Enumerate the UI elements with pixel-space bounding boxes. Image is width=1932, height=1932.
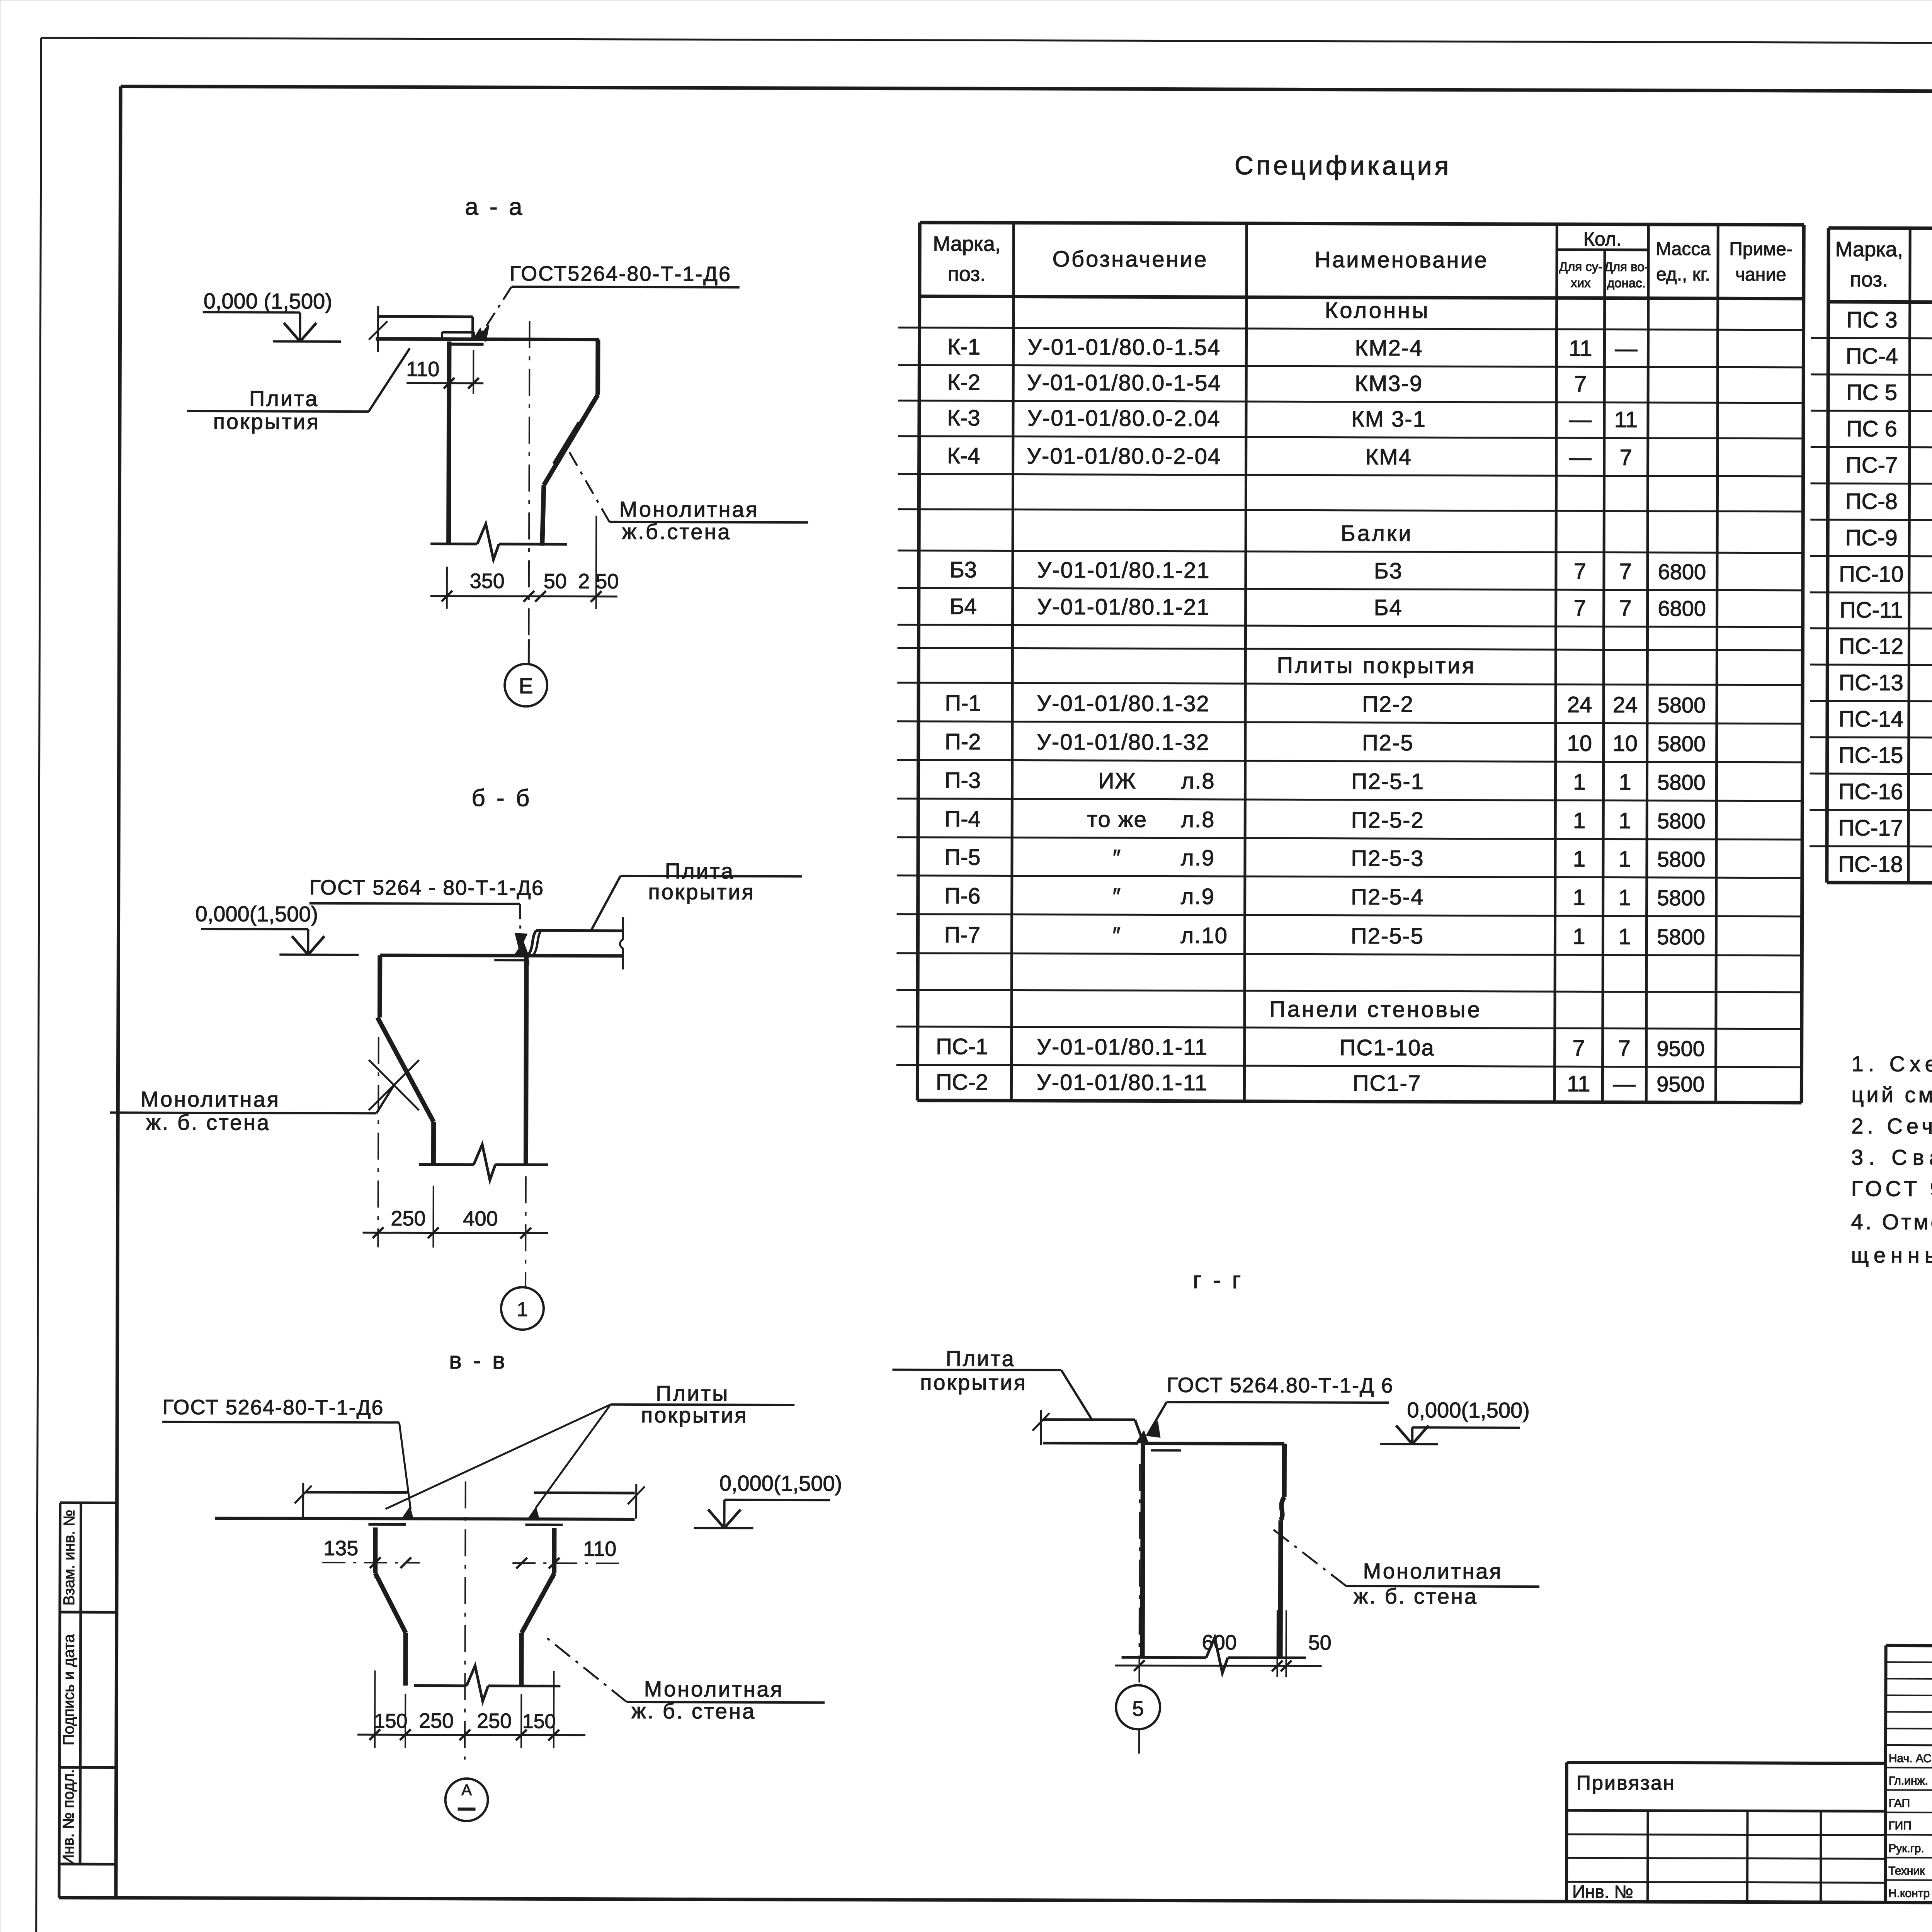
svg-text:5800: 5800 (1657, 770, 1706, 794)
svg-text:А: А (461, 1782, 472, 1799)
side stamp (left margin): Взам.инв.№ / Подпись и дата / Инв.№ подл. (59, 1503, 117, 1898)
svg-text:ГОСТ 5264 - 80-Т-1-Д6: ГОСТ 5264 - 80-Т-1-Д6 (310, 876, 544, 900)
section b-b wall outline (377, 955, 623, 1165)
svg-text:250: 250 (391, 1207, 425, 1230)
svg-text:1: 1 (517, 1298, 528, 1321)
svg-text:″: ″ (1112, 923, 1121, 948)
svg-text:Спецификация: Спецификация (1235, 151, 1452, 180)
left table data rows (936, 297, 1707, 1097)
svg-text:Монолитная: Монолитная (644, 1677, 784, 1701)
svg-text:П-3: П-3 (945, 768, 981, 793)
svg-text:9500: 9500 (1656, 1036, 1705, 1061)
section v-v axis circle (445, 1779, 488, 1821)
section b-b weld point (515, 943, 528, 955)
svg-text:50: 50 (1308, 1631, 1332, 1655)
section v-v roof slabs (215, 1483, 645, 1519)
svg-text:135: 135 (323, 1537, 358, 1560)
svg-text:—: — (1615, 336, 1637, 361)
svg-text:Для су-: Для су- (1559, 259, 1603, 274)
svg-text:Рук.гр.: Рук.гр. (1888, 1842, 1924, 1855)
svg-text:Е: Е (519, 673, 533, 698)
svg-text:1: 1 (1619, 847, 1631, 872)
svg-text:л.10: л.10 (1180, 923, 1228, 948)
svg-text:У-01-01/80.1-11: У-01-01/80.1-11 (1037, 1034, 1208, 1060)
section v-v bearing plates (368, 1524, 563, 1525)
svg-text:150: 150 (522, 1710, 556, 1733)
svg-text:У-01-01/80.0-1-54: У-01-01/80.0-1-54 (1027, 370, 1221, 396)
section v-v dim 110 (512, 1534, 622, 1578)
svg-text:Кол.: Кол. (1583, 228, 1622, 250)
section b-b elevation 0,000(1,500) (195, 901, 359, 955)
svg-text:ГАП: ГАП (1889, 1797, 1910, 1810)
svg-text:покрытия: покрытия (648, 879, 755, 904)
section v-v GOST weld label (162, 1396, 411, 1509)
section a-a GOST weld label (478, 262, 740, 342)
svg-text:Марка,: Марка, (1835, 238, 1903, 261)
svg-text:1: 1 (1573, 846, 1585, 871)
svg-text:П2-5-2: П2-5-2 (1351, 808, 1424, 833)
section g-g label Монолитная ж.б.стена (1269, 1526, 1540, 1609)
svg-text:2. Сечения замаркированы на: 2. Сечения замаркированы на л.18 (1851, 1114, 1932, 1139)
svg-text:Взам. инв. №: Взам. инв. № (61, 1510, 78, 1605)
svg-text:—: — (1569, 407, 1592, 432)
svg-text:г - г: г - г (1193, 1267, 1243, 1294)
left table row lines (896, 328, 1804, 1067)
svg-text:6800: 6800 (1658, 596, 1706, 621)
notes text block (1851, 1051, 1932, 1269)
svg-text:Обозначение: Обозначение (1053, 247, 1208, 272)
svg-text:5800: 5800 (1657, 731, 1706, 756)
svg-text:Масса: Масса (1656, 239, 1711, 259)
svg-text:7: 7 (1572, 1036, 1585, 1061)
right specification table frame (1827, 228, 1932, 885)
svg-text:1: 1 (1573, 924, 1585, 949)
svg-text:Гл.инж.: Гл.инж. (1889, 1774, 1928, 1787)
svg-text:1: 1 (1619, 885, 1631, 910)
section v-v centerline (465, 1481, 466, 1760)
svg-text:Б4: Б4 (1374, 595, 1402, 620)
svg-text:5800: 5800 (1657, 925, 1705, 949)
svg-text:″: ″ (1112, 884, 1121, 909)
svg-text:50: 50 (544, 570, 567, 593)
svg-text:—: — (1613, 1071, 1635, 1097)
left specification table frame (917, 223, 1804, 1103)
svg-text:5800: 5800 (1657, 886, 1705, 910)
svg-text:Монолитная: Монолитная (1363, 1559, 1502, 1583)
svg-text:5800: 5800 (1657, 847, 1706, 871)
svg-text:КМ2-4: КМ2-4 (1355, 335, 1423, 361)
svg-text:10: 10 (1612, 731, 1638, 756)
svg-text:1. Схему расположения сборных: 1. Схему расположения сборных железобето… (1852, 1051, 1932, 1078)
svg-text:П-5: П-5 (944, 845, 980, 870)
section a-a embedded weld plates (442, 332, 483, 344)
svg-text:У-01-01/80.1-21: У-01-01/80.1-21 (1037, 558, 1210, 583)
svg-text:У-01-01/80.1-32: У-01-01/80.1-32 (1037, 691, 1209, 716)
section b-b label Плита покрытия (591, 859, 802, 930)
section v-v dim 135 (322, 1533, 420, 1578)
section a-a centerline (529, 321, 529, 639)
svg-text:К-2: К-2 (947, 370, 980, 395)
svg-text:250: 250 (477, 1709, 512, 1733)
svg-text:П2-2: П2-2 (1362, 692, 1414, 717)
svg-text:У-01-01/80.0-1.54: У-01-01/80.0-1.54 (1028, 335, 1221, 360)
svg-text:П-1: П-1 (945, 690, 981, 716)
svg-text:донас.: донас. (1607, 276, 1646, 290)
svg-text:Привязан: Привязан (1577, 1772, 1675, 1794)
section a-a bottom break line (430, 543, 477, 545)
section v-v label Монолитная ж.б.стена (545, 1636, 825, 1723)
svg-text:П-2: П-2 (945, 729, 981, 754)
svg-text:400: 400 (463, 1207, 498, 1230)
svg-text:КМ4: КМ4 (1365, 444, 1412, 469)
svg-text:П-4: П-4 (945, 806, 981, 832)
svg-text:1: 1 (1619, 770, 1631, 795)
svg-text:Панели стеновые: Панели стеновые (1269, 997, 1482, 1022)
svg-text:а - а: а - а (465, 194, 524, 220)
section a-a roof slab (369, 306, 473, 352)
svg-text:—: — (1569, 445, 1592, 470)
svg-text:П2-5: П2-5 (1362, 730, 1414, 755)
svg-text:7: 7 (1619, 559, 1632, 584)
svg-text:150: 150 (374, 1710, 408, 1732)
svg-text:5: 5 (1132, 1697, 1144, 1720)
svg-text:Б3: Б3 (950, 557, 977, 582)
section b-b left witness dashdot (378, 1037, 378, 1247)
svg-text:ПС-4: ПС-4 (1846, 344, 1898, 369)
svg-text:ПС-18: ПС-18 (1838, 852, 1903, 877)
section g-g roof slab (1032, 1410, 1143, 1446)
svg-text:поз.: поз. (948, 262, 986, 286)
svg-text:К-4: К-4 (947, 443, 980, 468)
svg-text:П-6: П-6 (944, 883, 980, 908)
svg-text:Инв. № подл.: Инв. № подл. (60, 1769, 77, 1865)
svg-text:Н.контр: Н.контр (1888, 1887, 1930, 1900)
svg-text:350: 350 (470, 570, 505, 593)
svg-text:К-3: К-3 (947, 405, 980, 430)
svg-text:покрытия: покрытия (641, 1403, 748, 1427)
svg-text:Плита: Плита (946, 1346, 1015, 1371)
section g-g centerline + axis circle 5 (1116, 1464, 1161, 1753)
svg-text:ед., кг.: ед., кг. (1656, 264, 1710, 285)
svg-text:7: 7 (1619, 445, 1632, 470)
svg-text:1: 1 (1618, 924, 1631, 949)
svg-text:0,000 (1,500): 0,000 (1,500) (204, 289, 332, 313)
svg-text:1: 1 (1573, 808, 1585, 833)
svg-text:Плиты: Плиты (656, 1381, 729, 1405)
svg-text:ПС-1: ПС-1 (936, 1034, 988, 1059)
svg-text:Техник: Техник (1888, 1864, 1925, 1877)
svg-text:1: 1 (1573, 885, 1585, 910)
svg-text:П2-5-4: П2-5-4 (1351, 884, 1424, 910)
section b-b label Монолитная ж.б.стена (110, 1084, 394, 1135)
section v-v bottom dimension chain 150 250 250 150 (357, 1670, 586, 1748)
svg-text:Плита: Плита (249, 386, 319, 410)
svg-text:ПС-12: ПС-12 (1839, 634, 1904, 659)
section v-v elevation 0,000(1,500) (694, 1471, 842, 1528)
svg-text:л.9: л.9 (1181, 884, 1215, 909)
svg-text:У-01-01/80.0-2-04: У-01-01/80.0-2-04 (1027, 444, 1221, 469)
svg-text:У-01-01/80.1-11: У-01-01/80.1-11 (1037, 1070, 1208, 1095)
section b-b roof slab (right) (528, 917, 623, 969)
right table header text (1835, 232, 1932, 296)
section a-a wall outline (375, 339, 599, 546)
svg-text:ГОСТ 9467-75.: ГОСТ 9467-75. (1851, 1176, 1932, 1201)
svg-text:Колонны: Колонны (1325, 298, 1430, 323)
svg-text:ПС-9: ПС-9 (1845, 525, 1897, 550)
section v-v column outline (375, 1527, 554, 1686)
svg-text:КМ 3-1: КМ 3-1 (1351, 406, 1426, 432)
section a-a weld point (474, 329, 484, 339)
section g-g elevation 0,000(1,500) (1380, 1398, 1530, 1444)
section a-a label Плита покрытия (187, 348, 410, 434)
svg-text:ПС1-7: ПС1-7 (1353, 1071, 1422, 1096)
svg-text:ГОСТ 5264.80-Т-1-Д 6: ГОСТ 5264.80-Т-1-Д 6 (1167, 1374, 1393, 1398)
title block: left extension (Привязан / revision rows / Инв.№) (1566, 1762, 1886, 1902)
svg-text:П2-5-5: П2-5-5 (1351, 923, 1424, 949)
svg-text:Плиты покрытия: Плиты покрытия (1277, 653, 1476, 678)
svg-text:У-01-01/80.1-21: У-01-01/80.1-21 (1037, 594, 1210, 620)
section v-v label Плиты покрытия (386, 1380, 795, 1510)
svg-text:Марка,: Марка, (933, 232, 1001, 255)
svg-text:щенных грунтов.: щенных грунтов. (1851, 1243, 1932, 1268)
svg-text:б - б: б - б (471, 785, 532, 811)
svg-text:0,000(1,500): 0,000(1,500) (1407, 1398, 1530, 1422)
svg-text:ПС-14: ПС-14 (1838, 706, 1903, 731)
section v-v weld points (403, 1508, 413, 1518)
svg-text:л.8: л.8 (1181, 769, 1215, 794)
svg-text:ПС-8: ПС-8 (1845, 489, 1898, 514)
svg-text:Для во-: Для во- (1604, 260, 1648, 274)
svg-text:Подпись и дата: Подпись и дата (60, 1634, 78, 1745)
svg-text:10: 10 (1567, 731, 1592, 756)
svg-text:чание: чание (1735, 264, 1786, 285)
svg-text:5800: 5800 (1657, 809, 1706, 833)
right table row lines (1810, 338, 1932, 849)
svg-text:Монолитная: Монолитная (619, 497, 759, 522)
svg-text:Наименование: Наименование (1315, 247, 1488, 273)
svg-text:6800: 6800 (1658, 560, 1706, 584)
section a-a dim 110 (406, 350, 483, 394)
section g-g bottom break line (1122, 1656, 1206, 1659)
svg-text:Инв. №: Инв. № (1572, 1881, 1633, 1901)
svg-text:поз.: поз. (1850, 268, 1888, 291)
svg-text:Балки: Балки (1341, 521, 1413, 546)
svg-text:Приме-: Приме- (1729, 239, 1793, 259)
svg-text:ПС-10: ПС-10 (1839, 561, 1904, 587)
section b-b X mark on wall (369, 1060, 419, 1110)
svg-text:ГИП: ГИП (1888, 1819, 1911, 1832)
svg-text:ГОСТ 5264-80-Т-1-Д6: ГОСТ 5264-80-Т-1-Д6 (162, 1396, 384, 1420)
svg-text:л.9: л.9 (1181, 845, 1215, 871)
section b-b dimension chain 250 400 (362, 1185, 548, 1248)
svg-text:ПС-13: ПС-13 (1838, 670, 1903, 695)
svg-text:У-01-01/80.0-2.04: У-01-01/80.0-2.04 (1027, 406, 1221, 431)
svg-text:покрытия: покрытия (213, 409, 320, 434)
svg-text:П2-5-3: П2-5-3 (1351, 846, 1424, 871)
svg-text:7: 7 (1618, 1036, 1630, 1061)
svg-text:ПС 6: ПС 6 (1846, 416, 1897, 441)
svg-text:9500: 9500 (1656, 1072, 1705, 1096)
svg-text:7: 7 (1574, 559, 1586, 584)
svg-text:Б4: Б4 (949, 594, 976, 619)
svg-text:П-7: П-7 (944, 922, 980, 947)
svg-text:7: 7 (1573, 595, 1586, 621)
section g-g GOST weld label (1147, 1373, 1394, 1437)
svg-text:ПС-11: ПС-11 (1840, 597, 1903, 622)
svg-text:ПС-16: ПС-16 (1838, 779, 1903, 804)
svg-text:0,000(1,500): 0,000(1,500) (196, 901, 318, 926)
svg-text:2 50: 2 50 (578, 570, 619, 593)
svg-text:11: 11 (1569, 336, 1592, 361)
svg-text:ПС-15: ПС-15 (1838, 743, 1903, 768)
left table header text (933, 226, 1793, 291)
svg-text:Нач. АСМ2: Нач. АСМ2 (1889, 1752, 1932, 1765)
section b-b GOST weld label (309, 876, 544, 949)
svg-text:Монолитная: Монолитная (141, 1087, 280, 1112)
section b-b bottom break line (419, 1163, 474, 1166)
svg-text:ПС 5: ПС 5 (1846, 380, 1897, 405)
svg-text:24: 24 (1613, 692, 1638, 718)
svg-text:П2-5-1: П2-5-1 (1351, 769, 1424, 794)
right table data rows (1838, 307, 1932, 879)
svg-text:ГОСТ5264-80-Т-1-Д6: ГОСТ5264-80-Т-1-Д6 (510, 262, 731, 286)
svg-text:ПС-7: ПС-7 (1845, 452, 1898, 478)
svg-text:1: 1 (1573, 769, 1585, 794)
svg-text:7: 7 (1574, 371, 1587, 396)
section b-b centerline + axis circle 1 (501, 1176, 544, 1330)
svg-text:ПС-2: ПС-2 (936, 1070, 988, 1095)
svg-text:ПС1-10а: ПС1-10а (1340, 1035, 1435, 1061)
svg-text:110: 110 (583, 1537, 616, 1561)
svg-text:11: 11 (1567, 1071, 1590, 1096)
svg-text:Б3: Б3 (1374, 558, 1403, 583)
title block: signature table (1885, 1645, 1932, 1905)
section g-g weld point (1137, 1432, 1148, 1442)
section g-g dimension chain 600 50 (1115, 1610, 1331, 1677)
svg-text:7: 7 (1619, 596, 1631, 621)
svg-text:24: 24 (1567, 692, 1592, 717)
svg-text:1: 1 (1619, 808, 1631, 833)
svg-text:ций см. л.18.: ций см. л.18. (1851, 1082, 1932, 1107)
section a-a elevation 0,000 (1,500) (202, 289, 341, 342)
svg-text:покрытия: покрытия (920, 1370, 1027, 1395)
svg-text:600: 600 (1202, 1631, 1237, 1654)
svg-text:ПС 3: ПС 3 (1847, 307, 1898, 332)
svg-text:У-01-01/80.1-32: У-01-01/80.1-32 (1037, 730, 1209, 755)
svg-text:11: 11 (1614, 407, 1638, 432)
svg-text:″: ″ (1113, 845, 1122, 870)
svg-text:л.8: л.8 (1181, 807, 1215, 832)
svg-text:5800: 5800 (1658, 693, 1706, 717)
svg-text:в - в: в - в (449, 1347, 507, 1374)
section g-g wall outline (1143, 1443, 1284, 1658)
svg-text:ИЖ: ИЖ (1098, 768, 1136, 793)
svg-text:3. Сварку производить электрод: 3. Сварку производить электродами типа Э… (1851, 1145, 1932, 1171)
section a-a label Монолитная ж.б.стена (553, 422, 808, 544)
svg-text:К-1: К-1 (947, 334, 981, 359)
svg-text:110: 110 (406, 357, 439, 381)
section a-a bottom dimension chain 350 50 250 (430, 515, 619, 609)
section g-g label Плита покрытия (892, 1346, 1092, 1420)
svg-text:хих: хих (1571, 276, 1591, 290)
section v-v bottom break line (414, 1684, 466, 1687)
svg-text:4. Отметки в скобках даны для: 4. Отметки в скобках даны для варианта в… (1851, 1209, 1932, 1235)
svg-text:0,000(1,500): 0,000(1,500) (719, 1471, 842, 1496)
section a-a axis circle Е (505, 639, 547, 706)
svg-text:КМ3-9: КМ3-9 (1355, 371, 1423, 396)
svg-text:ПС-17: ПС-17 (1838, 815, 1903, 840)
svg-text:250: 250 (419, 1709, 454, 1732)
svg-text:то же: то же (1087, 807, 1147, 832)
